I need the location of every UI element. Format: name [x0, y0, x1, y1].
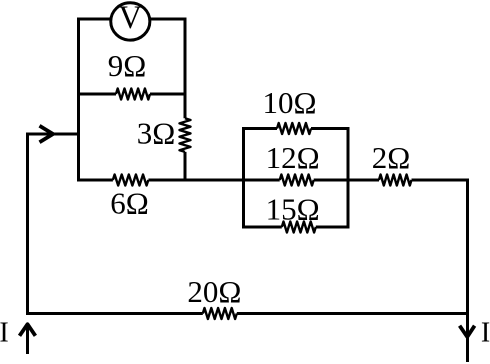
wire right outer vertical: [466, 180, 469, 362]
current arrow out (bottom right): [460, 326, 475, 337]
svg-text:15Ω: 15Ω: [266, 191, 320, 226]
svg-text:I: I: [481, 317, 490, 348]
wire right side of left block: [184, 18, 187, 182]
resistor 3-ohm: [137, 115, 191, 152]
resistor 9-ohm: [108, 48, 150, 100]
wire middle parallel box: [244, 127, 349, 229]
svg-text:V: V: [119, 0, 143, 36]
wire input lead with arrow: [28, 126, 79, 142]
resistor 10-ohm: [262, 85, 316, 134]
svg-text:2Ω: 2Ω: [372, 140, 411, 175]
label I left: [0, 317, 9, 348]
resistor 12-ohm: [266, 140, 320, 186]
wire left outer vertical: [26, 133, 29, 316]
voltmeter V: [111, 0, 150, 40]
svg-text:3Ω: 3Ω: [137, 115, 176, 150]
label I right: [481, 317, 490, 348]
resistor 15-ohm: [266, 191, 320, 232]
svg-text:10Ω: 10Ω: [262, 85, 316, 120]
svg-text:9Ω: 9Ω: [108, 48, 147, 83]
svg-text:12Ω: 12Ω: [266, 140, 320, 175]
resistor 2-ohm: [372, 140, 412, 186]
wire left side of left block: [77, 18, 80, 182]
wire top of left block: [79, 18, 186, 21]
wire 9-ohm branch: [79, 93, 186, 96]
svg-text:20Ω: 20Ω: [187, 274, 241, 309]
wire main horizontal rail: [79, 179, 470, 182]
svg-text:6Ω: 6Ω: [110, 186, 149, 221]
resistor 6-ohm: [110, 175, 149, 221]
current arrow in (bottom left): [20, 323, 36, 354]
wire bottom rail: [26, 312, 469, 315]
svg-text:I: I: [0, 317, 9, 348]
resistor 20-ohm: [187, 274, 241, 319]
